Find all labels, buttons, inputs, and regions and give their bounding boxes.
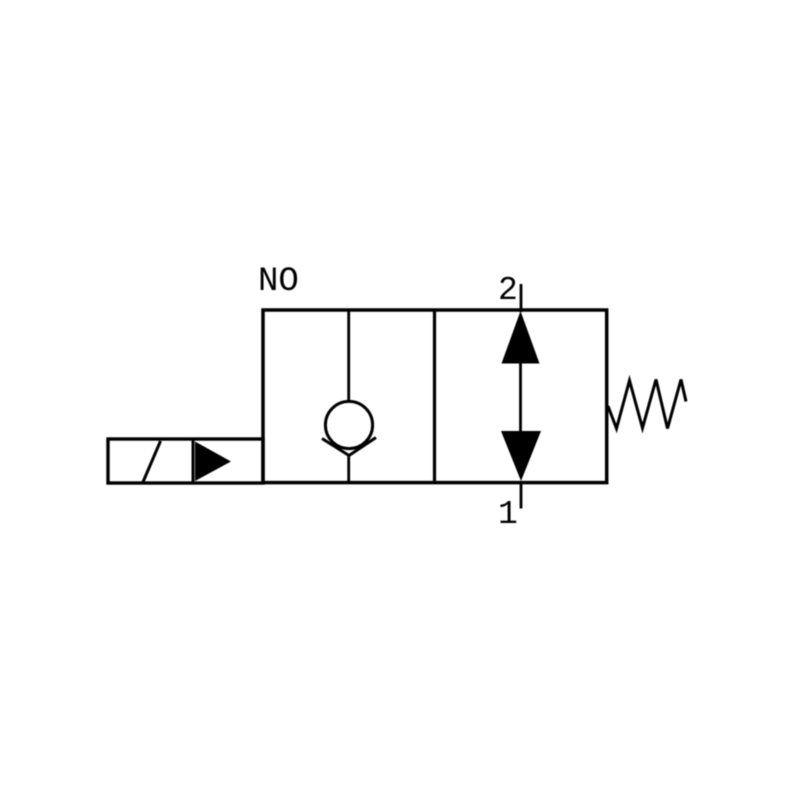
- solenoid divider: [192, 439, 195, 483]
- flow arrow down: [501, 431, 541, 481]
- flow arrow up: [502, 311, 540, 364]
- solenoid actuation arrow: [195, 442, 231, 482]
- wire (check-valve lower stem): [347, 455, 350, 483]
- check valve seat: [322, 438, 376, 456]
- spring: [608, 380, 686, 429]
- position divider: [433, 310, 436, 483]
- wire (flow path middle): [519, 362, 522, 432]
- solenoid slash: [143, 441, 161, 482]
- node 2 (port line): [520, 284, 523, 312]
- solenoid coil box: [108, 439, 263, 483]
- svg-text:2: 2: [498, 272, 518, 309]
- wire (check-valve upper stem): [347, 310, 350, 401]
- svg-text:1: 1: [498, 496, 518, 533]
- valve body (2-position envelope): [263, 310, 607, 483]
- check valve ball: [325, 401, 372, 448]
- node 1 (port line): [520, 483, 523, 509]
- svg-text:NO: NO: [258, 263, 299, 301]
